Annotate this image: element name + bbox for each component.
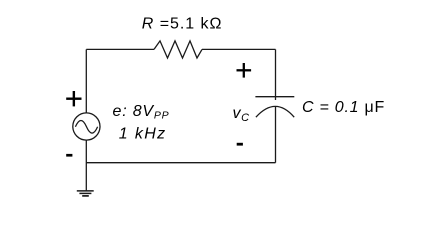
plus sign at source — [66, 91, 81, 106]
capacitor C1 top plate — [255, 96, 294, 98]
capacitor C1 bottom curved plate — [256, 106, 294, 117]
svg-text:C = 0.1 μF: C = 0.1 μF — [302, 99, 385, 116]
wire: top rail right segment — [202, 48, 276, 50]
minus sign at source — [66, 154, 72, 157]
wire: top rail left segment — [86, 48, 154, 50]
minus sign at capacitor — [237, 143, 243, 146]
plus sign at capacitor — [237, 63, 252, 78]
wire: right vertical down to capacitor top plate — [275, 49, 277, 100]
AC source sine wave — [75, 121, 97, 134]
wire: source bottom to bottom rail / ground stem — [85, 140, 87, 190]
svg-text:1 kHz: 1 kHz — [119, 126, 167, 143]
svg-text:e: 8VPP: e: 8VPP — [113, 103, 170, 122]
resistor R zigzag — [154, 41, 202, 58]
svg-text:R =5.1 kΩ: R =5.1 kΩ — [142, 16, 223, 33]
ground symbol — [77, 191, 94, 196]
wire: right vertical from capacitor arc to bottom rail — [275, 106, 277, 162]
AC source U1 circle — [73, 113, 100, 140]
wire: left vertical (top segment, source top to top rail) — [85, 49, 87, 113]
svg-text:vC: vC — [233, 105, 250, 124]
wire: bottom rail — [86, 162, 275, 164]
